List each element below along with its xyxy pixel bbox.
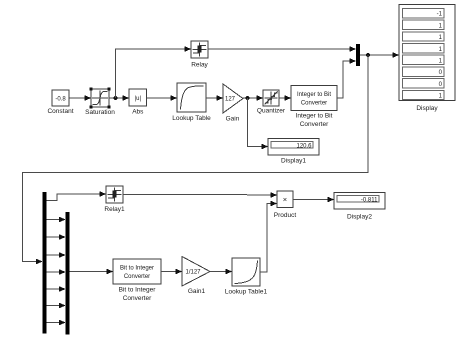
wire Relay to Mux input 1 [208,46,356,52]
wire Mux1 to Bit to Integer Converter [70,269,114,275]
svg-text:Relay1: Relay1 [104,206,125,213]
svg-text:Gain1: Gain1 [188,288,206,295]
wire Lookup Table1 to Product input 2 [260,201,277,272]
junction on Mux output [366,53,370,57]
saturation block Saturation (selected) [85,88,115,117]
svg-text:|u|: |u| [135,96,142,102]
svg-text:Quantizer: Quantizer [257,108,286,115]
svg-text:Product: Product [274,212,297,219]
svg-text:Display: Display [416,105,438,112]
svg-text:1/127: 1/127 [186,269,202,275]
svg-text:Converter: Converter [300,121,329,128]
wire branch Saturation to Relay [116,46,192,98]
svg-text:Gain: Gain [226,116,240,123]
svg-text:Converter: Converter [123,295,152,302]
wire feedback Mux junction to Demux [23,55,369,264]
svg-text:Bit to Integer: Bit to Integer [119,287,157,294]
svg-text:-1: -1 [437,12,443,18]
display block Display [399,5,455,113]
lookup table block Lookup Table1 [225,258,268,296]
junction after Gain [246,96,250,100]
svg-text:Constant: Constant [47,108,73,115]
lookup table block Lookup Table [172,83,211,122]
wire Gain to Quantizer [243,95,263,101]
wire Mux to Display [360,52,399,58]
gain block Gain1 [182,257,210,296]
svg-text:Lookup Table: Lookup Table [172,115,211,122]
junction after Saturation [114,96,118,100]
display block Display1 [268,139,319,165]
wire branch Gain to Display1 [248,98,269,149]
wire Gain1 to Lookup Table1 [210,269,232,275]
svg-text:Converter: Converter [124,274,150,280]
wire Demux output 4 to Mux1 [47,252,66,258]
wire Demux output 5 to Mux1 [47,269,66,275]
gain block Gain [223,84,243,123]
svg-text:120.6: 120.6 [296,143,312,149]
wire Product to Display2 [293,197,334,203]
quantizer block Quantizer [257,90,286,115]
wire Demux output 6 to Mux1 [47,286,66,292]
wire Demux output 2 to Mux1 [47,217,66,223]
abs block Abs [129,89,147,116]
wire Integer to Bit Converter to Mux input 2 [337,58,356,98]
constant block Constant [47,90,73,115]
wire Lookup Table to Gain [206,95,223,101]
display block Display2 [334,193,385,221]
svg-text:Relay: Relay [191,62,208,69]
svg-text:Bit to Integer: Bit to Integer [120,266,154,272]
wire Demux output 8 to Mux1 [47,320,66,326]
svg-text:Lookup Table1: Lookup Table1 [225,289,268,296]
svg-text:Abs: Abs [132,109,144,116]
wire Saturation to Abs [109,95,129,101]
wire Relay1 to Product input 1 [123,192,277,198]
mux Mux1 [66,212,70,335]
svg-text:-0.811: -0.811 [361,197,378,203]
demux Demux [43,192,47,334]
svg-text:×: × [283,195,287,204]
svg-text:127: 127 [225,97,236,103]
wire Demux output 7 to Mux1 [47,303,66,309]
wire Quantizer to Integer to Bit Converter [279,95,291,101]
svg-text:Integer to Bit: Integer to Bit [296,113,333,120]
mux Mux [356,44,360,66]
relay block Relay1 [104,186,125,213]
wire Demux output 3 to Mux1 [47,234,66,240]
svg-text:-0.8: -0.8 [55,97,66,103]
wire Abs to Lookup Table [147,95,178,101]
block Integer to Bit Converter [291,86,337,129]
block Bit to Integer Converter [113,259,161,302]
relay block Relay [191,41,209,69]
svg-text:Display2: Display2 [347,214,372,221]
wire Constant to Saturation [69,95,91,101]
svg-text:Integer to Bit: Integer to Bit [297,92,331,98]
product block Product [274,191,297,219]
svg-text:Display1: Display1 [281,158,306,165]
svg-text:Saturation: Saturation [85,109,115,116]
wire Demux output 1 to Relay1 [47,191,107,200]
wire Bit to Integer Converter to Gain1 [161,269,182,275]
svg-text:Converter: Converter [301,101,327,107]
